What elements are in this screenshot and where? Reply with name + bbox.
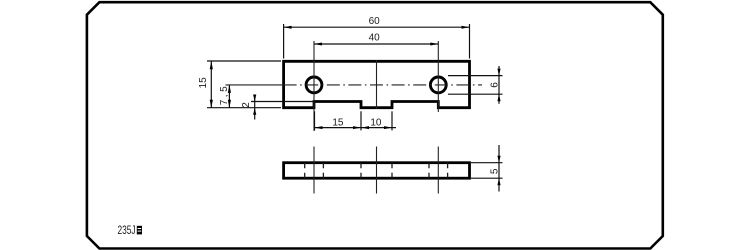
svg-text:10: 10	[370, 117, 382, 128]
svg-text:15: 15	[198, 77, 209, 89]
bottom view center line middle	[376, 147, 378, 194]
vertical center line left hole	[313, 41, 315, 131]
dimension 5 (thickness)	[471, 145, 503, 192]
svg-text:235J: 235J	[118, 223, 136, 237]
svg-text:15: 15	[332, 117, 344, 128]
bottom view outline	[284, 163, 470, 179]
svg-text:7,5: 7,5	[219, 86, 230, 105]
vertical center line right hole	[437, 41, 439, 112]
bottom view center line left	[313, 147, 315, 194]
bottom view center line right	[437, 147, 439, 194]
dimension 6 (hole dia, right)	[448, 66, 503, 104]
svg-text:40: 40	[369, 33, 381, 44]
svg-text:2: 2	[241, 102, 252, 108]
dimension 60	[284, 24, 470, 59]
dimension 7,5	[228, 85, 231, 108]
dimension 15 (left height)	[207, 61, 281, 108]
svg-text:60: 60	[369, 16, 381, 27]
dimension 15 and 10 (bottom notch)	[315, 111, 397, 130]
dimension 40	[314, 43, 438, 46]
caption 235J block	[118, 223, 143, 237]
svg-text:6: 6	[490, 82, 501, 88]
dimension 2 (step)	[251, 95, 314, 120]
svg-text:5: 5	[490, 168, 501, 174]
horizontal center line (dash-dot)	[226, 84, 284, 86]
border frame (chamfered corners)	[87, 2, 663, 248]
hole right	[430, 77, 446, 93]
hidden lines (holes and notch) in bottom view	[305, 163, 448, 179]
part outline main view	[284, 61, 470, 107]
vertical center line middle	[376, 60, 378, 109]
hole left	[306, 77, 322, 93]
